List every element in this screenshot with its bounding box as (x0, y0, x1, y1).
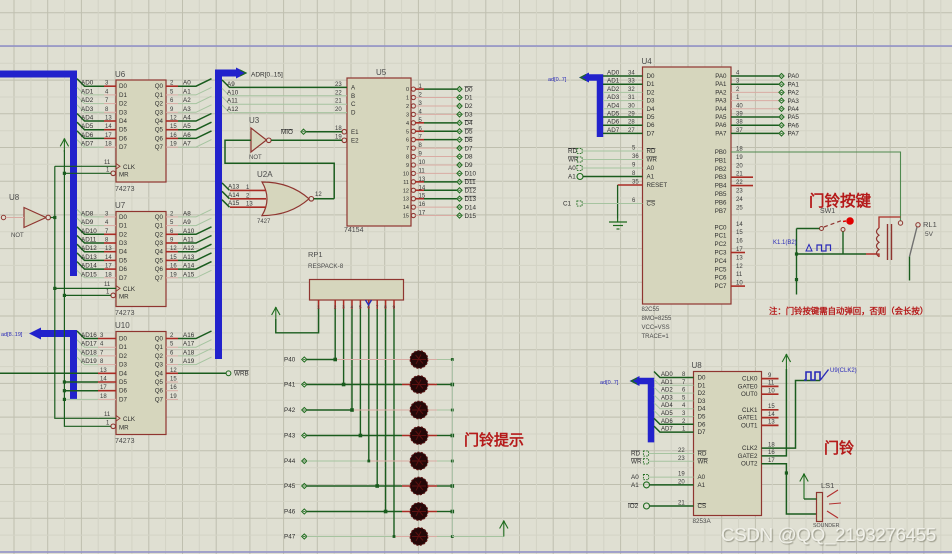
svg-text:4: 4 (406, 121, 409, 127)
svg-text:PA3: PA3 (788, 98, 800, 105)
latch U10 74273 body (116, 332, 166, 435)
terminal D11 (457, 179, 462, 184)
svg-text:NOT: NOT (11, 233, 24, 239)
svg-text:12: 12 (170, 116, 177, 122)
svg-text:Q3: Q3 (155, 109, 164, 116)
svg-text:19: 19 (736, 155, 743, 161)
U5 output 12 D12 (411, 188, 415, 192)
svg-text:GATE1: GATE1 (738, 415, 758, 422)
U4 pin PA0 (731, 75, 779, 77)
svg-text:A6: A6 (183, 132, 191, 139)
svg-text:5: 5 (406, 129, 409, 135)
svg-text:D12: D12 (465, 187, 477, 194)
U7 pin Q2 A10 (166, 233, 178, 235)
svg-text:PB1: PB1 (715, 157, 727, 164)
U5 output 2 D2 (411, 104, 415, 108)
svg-text:D4: D4 (119, 249, 127, 256)
svg-text:U2A: U2A (257, 170, 273, 179)
resistor pack RP1 RESPACK-8 (310, 280, 404, 301)
svg-text:OUT1: OUT1 (741, 422, 758, 429)
wire P46 to LED (307, 511, 386, 513)
svg-text:AD5: AD5 (81, 123, 94, 130)
terminal D13 (457, 196, 462, 201)
latch U6 74273 body (116, 80, 166, 182)
svg-text:8: 8 (406, 155, 409, 161)
svg-text:Q2: Q2 (155, 231, 164, 238)
svg-text:23: 23 (736, 189, 743, 195)
wire RP1 pin9 to LED row 8 (393, 309, 395, 537)
svg-text:33: 33 (628, 79, 635, 85)
svg-text:Q0: Q0 (155, 83, 164, 90)
svg-text:D5: D5 (698, 414, 706, 421)
svg-text:0: 0 (406, 87, 409, 93)
svg-text:D8: D8 (465, 154, 474, 161)
node CLK-NOT junction (53, 216, 56, 219)
RP1 pin 9 (393, 300, 395, 309)
U4 pin D3 AD3 (603, 100, 643, 102)
svg-text:A1: A1 (698, 482, 706, 489)
svg-text:PA2: PA2 (788, 90, 800, 97)
svg-text:Q1: Q1 (155, 223, 164, 230)
svg-text:GATE0: GATE0 (738, 383, 758, 390)
terminal PA4 (779, 106, 784, 111)
svg-text:Q4: Q4 (155, 118, 164, 125)
svg-text:P41: P41 (284, 382, 296, 389)
relay contact right (916, 223, 920, 227)
wire LS1 top pin (804, 498, 817, 500)
svg-text:14: 14 (100, 377, 107, 383)
svg-text:AD2: AD2 (661, 388, 673, 394)
wire SW1 right down (842, 232, 844, 255)
svg-text:AD6: AD6 (81, 132, 94, 139)
svg-text:Q7: Q7 (155, 396, 164, 403)
svg-text:PA0: PA0 (788, 73, 800, 80)
RP1 pin 7 (376, 300, 378, 309)
svg-text:23: 23 (335, 82, 342, 88)
wire VCC to RP1 pin1 (276, 309, 319, 333)
svg-text:D0: D0 (698, 375, 706, 382)
svg-text:82C55: 82C55 (642, 307, 660, 313)
svg-text:A10: A10 (183, 228, 195, 235)
terminal PA5 (779, 114, 784, 119)
node cathode junction 2 (451, 409, 454, 412)
svg-text:PC6: PC6 (714, 275, 727, 282)
U8 pin D1 AD1 (654, 379, 694, 385)
wire P44 to LED (307, 460, 369, 462)
svg-text:门铃: 门铃 (824, 439, 855, 457)
svg-text:74273: 74273 (115, 438, 135, 445)
svg-text:Q5: Q5 (155, 127, 164, 134)
svg-text:ad[0..7]: ad[0..7] (548, 77, 567, 83)
U10 pin D6 (98, 390, 116, 392)
U5 output 5 D5 (411, 129, 415, 133)
U7 pin Q1 A9 (166, 225, 178, 227)
svg-text:PA3: PA3 (715, 98, 727, 105)
terminal D12 (457, 188, 462, 193)
svg-text:PB7: PB7 (715, 208, 727, 215)
wire net to U10 D4 from left edge (0, 372, 98, 374)
terminal D5 (457, 129, 462, 134)
LED D2 (402, 384, 411, 386)
U5 pin B A10 (222, 88, 347, 96)
svg-text:A18: A18 (183, 349, 195, 356)
svg-text:门铃按键: 门铃按键 (809, 191, 872, 210)
terminal PA1 (779, 82, 784, 87)
svg-text:13: 13 (105, 246, 112, 252)
svg-text:12: 12 (315, 192, 322, 198)
svg-text:A11: A11 (183, 237, 194, 244)
svg-text:P47: P47 (284, 534, 296, 541)
svg-text:CLK1: CLK1 (742, 407, 758, 414)
svg-text:D0: D0 (647, 73, 655, 80)
svg-text:PC3: PC3 (714, 250, 727, 257)
svg-text:Q0: Q0 (155, 336, 164, 343)
U5 output 7 D7 (411, 146, 415, 150)
svg-text:11: 11 (736, 272, 743, 278)
svg-text:WR: WR (647, 157, 658, 164)
svg-text:D3: D3 (465, 112, 474, 119)
svg-text:2: 2 (406, 104, 409, 110)
svg-text:D4: D4 (119, 118, 127, 125)
svg-text:Q6: Q6 (155, 388, 164, 395)
RP1 pin 1 (318, 300, 320, 309)
U8 pin D3 AD3 (654, 395, 694, 401)
LED D4 (402, 435, 411, 437)
wire OUT2 to sounder (762, 464, 817, 514)
bus AD8-AD19 left arrow (40, 334, 74, 400)
svg-text:D14: D14 (465, 204, 477, 211)
svg-text:D1: D1 (119, 344, 127, 351)
terminal D6 (457, 137, 462, 142)
svg-text:D3: D3 (647, 98, 655, 105)
wire to U10 D5 (64, 381, 98, 383)
svg-text:PA1: PA1 (715, 81, 727, 88)
svg-text:D4: D4 (119, 370, 127, 377)
svg-text:A9: A9 (183, 219, 191, 226)
svg-text:15: 15 (170, 124, 177, 130)
svg-text:17: 17 (105, 133, 112, 139)
svg-text:WR: WR (631, 458, 642, 465)
svg-text:34: 34 (628, 71, 635, 77)
LED D7 (402, 511, 411, 513)
U10 pin D0 AD16 (98, 338, 116, 340)
clock source U9(CLK2) (804, 372, 820, 380)
svg-text:A12: A12 (227, 106, 239, 113)
svg-text:PA5: PA5 (788, 114, 800, 121)
svg-text:D2: D2 (119, 231, 127, 238)
svg-text:AD2: AD2 (81, 97, 94, 104)
svg-text:AD3: AD3 (607, 94, 620, 101)
svg-text:37: 37 (736, 128, 743, 134)
svg-text:D3: D3 (119, 362, 127, 369)
svg-text:B: B (351, 93, 355, 100)
wire GATE2 to power (762, 369, 787, 456)
node cathode junction 5 (451, 484, 455, 488)
svg-text:A11: A11 (227, 98, 238, 105)
svg-text:A0: A0 (568, 165, 576, 172)
svg-text:AD7: AD7 (81, 141, 94, 148)
svg-text:RD: RD (698, 451, 707, 458)
svg-text:D6: D6 (647, 122, 655, 129)
wire CLK net vertical (55, 166, 116, 418)
U6 pin Q2 A2 (166, 103, 178, 105)
wire relay coil bottom (877, 254, 879, 257)
svg-text:U4: U4 (642, 57, 653, 66)
svg-text:D1: D1 (119, 223, 127, 230)
node MR-U6 junction (63, 172, 66, 175)
svg-text:PA1: PA1 (788, 81, 800, 88)
terminal U8 input (1, 215, 5, 219)
svg-text:AD17: AD17 (81, 341, 97, 348)
U10 pin D4 (98, 372, 116, 374)
U5 output 10 D10 (411, 171, 415, 175)
PPI U4 8255 body (643, 67, 732, 304)
LED D8 (402, 536, 411, 538)
svg-text:15: 15 (736, 230, 743, 236)
svg-text:D2: D2 (119, 353, 127, 360)
wire P40 to LED (307, 359, 335, 361)
svg-text:40: 40 (736, 103, 743, 109)
svg-text:11: 11 (104, 160, 111, 166)
U2A input A14 (230, 198, 266, 200)
wire U8 output to CLK net (51, 217, 55, 219)
svg-text:A0: A0 (647, 165, 655, 172)
U4 pin D4 AD4 (603, 108, 643, 110)
U6 pin Q4 A4 (166, 120, 178, 122)
wire P42 to LED (307, 409, 352, 411)
terminal D15 (457, 213, 462, 218)
terminal D1 (457, 95, 462, 100)
svg-text:Q5: Q5 (155, 379, 164, 386)
wire LED 6 cathode (437, 485, 452, 487)
U4 pin PA1 (731, 83, 779, 85)
svg-text:WRB: WRB (234, 370, 249, 377)
svg-text:27: 27 (628, 128, 635, 134)
svg-text:PA7: PA7 (715, 130, 727, 137)
svg-text:21: 21 (335, 99, 342, 105)
svg-text:3: 3 (406, 112, 409, 118)
svg-text:MR: MR (119, 425, 129, 432)
node staircase junction 6 (384, 510, 388, 514)
svg-text:AD4: AD4 (661, 403, 673, 409)
svg-text:A0: A0 (183, 80, 191, 87)
svg-text:D7: D7 (119, 396, 127, 403)
node cathode junction 1 (451, 383, 455, 387)
svg-text:PA2: PA2 (715, 89, 727, 96)
svg-text:P40: P40 (284, 357, 296, 364)
svg-text:19: 19 (170, 272, 177, 278)
svg-text:D7: D7 (647, 130, 655, 137)
U5 output 13 D13 (411, 197, 415, 201)
wire RP1 pin8 to LED row 7 (385, 309, 387, 512)
U7 pin D3 AD11 (104, 242, 116, 244)
LED D1 (402, 359, 411, 361)
svg-text:D15: D15 (465, 213, 477, 220)
terminal D4 (457, 120, 462, 125)
svg-text:AD4: AD4 (81, 115, 94, 122)
wire MR net vertical (64, 150, 111, 426)
svg-text:A15: A15 (228, 200, 240, 207)
U4 pin PA7 (731, 132, 779, 134)
U7 pin Q4 A12 (166, 251, 178, 253)
svg-text:A12: A12 (183, 245, 195, 252)
U5 output 1 D1 (411, 95, 415, 99)
svg-text:31: 31 (628, 95, 635, 101)
terminal PA7 (779, 131, 784, 136)
page boundary line bottom (0, 551, 952, 553)
svg-text:A19: A19 (183, 358, 195, 365)
svg-text:D5: D5 (119, 379, 127, 386)
U6 pin D0 AD0 (104, 85, 116, 87)
wire LED common cathode vertical (451, 360, 453, 537)
wire cathode to power (452, 536, 504, 538)
terminal D2 (457, 103, 462, 108)
wire RP1 pin3 to LED row 2 (343, 309, 345, 385)
svg-text:P46: P46 (284, 509, 296, 516)
terminal D8 (457, 154, 462, 159)
svg-text:D11: D11 (465, 179, 477, 186)
svg-text:PA7: PA7 (788, 131, 800, 138)
RP1 pin 2 (334, 300, 336, 309)
U8 pin D4 AD4 (654, 403, 694, 409)
wire to U10 D7 (64, 398, 98, 400)
svg-text:AD13: AD13 (81, 254, 97, 261)
wire U3 input net from NOR output (225, 140, 334, 199)
svg-text:AD3: AD3 (661, 395, 673, 401)
svg-text:D1: D1 (119, 92, 127, 99)
svg-text:13: 13 (246, 202, 253, 208)
svg-text:D2: D2 (698, 390, 706, 397)
svg-text:A3: A3 (183, 106, 191, 113)
svg-text:CSDN @QQ_2193276455: CSDN @QQ_2193276455 (721, 524, 936, 546)
svg-text:17: 17 (100, 385, 107, 391)
U10 pin Q0 A16 (166, 338, 178, 340)
svg-text:D1: D1 (465, 95, 474, 102)
LED D6 (402, 485, 411, 487)
wire P43 to LED (307, 435, 361, 437)
svg-text:TRACE=1: TRACE=1 (642, 334, 670, 340)
wire RESET to ground (618, 184, 643, 186)
svg-text:P43: P43 (284, 433, 296, 440)
svg-text:AD1: AD1 (607, 78, 620, 85)
svg-text:5V: 5V (925, 231, 934, 238)
svg-text:CLK: CLK (123, 286, 136, 293)
U5 output 9 D9 (411, 163, 415, 167)
wire LED 5 cathode (437, 460, 452, 462)
U4 pin PA3 (731, 100, 779, 102)
svg-text:D3: D3 (119, 109, 127, 116)
svg-text:D4: D4 (647, 106, 655, 113)
U6 pin D7 AD7 (104, 146, 116, 148)
svg-text:AD6: AD6 (607, 119, 620, 126)
svg-text:CLK: CLK (123, 416, 136, 423)
svg-text:A17: A17 (183, 341, 195, 348)
terminal PA6 (779, 123, 784, 128)
LED D5 (402, 460, 411, 462)
svg-text:A1: A1 (568, 174, 576, 181)
svg-text:18: 18 (105, 142, 112, 148)
wire PB0 to relay (731, 152, 901, 221)
RP1 pin 4 (351, 300, 353, 309)
svg-text:13: 13 (403, 197, 409, 203)
U5 pin D A12 (222, 105, 347, 113)
svg-text:D10: D10 (465, 171, 477, 178)
svg-text:16: 16 (736, 239, 743, 245)
svg-text:AD9: AD9 (81, 219, 94, 226)
relay blade (910, 227, 918, 257)
wire LED 7 cathode (437, 511, 452, 513)
U4 pin D2 AD2 (603, 91, 643, 93)
svg-text:A14: A14 (228, 192, 240, 199)
wire LED 1 cathode (437, 359, 452, 361)
U4 pin D5 AD5 (603, 116, 643, 118)
svg-text:Q4: Q4 (155, 370, 164, 377)
svg-text:15: 15 (170, 255, 177, 261)
svg-text:ADR[0..15]: ADR[0..15] (251, 72, 283, 79)
svg-text:P42: P42 (284, 407, 296, 414)
svg-text:Q2: Q2 (155, 353, 164, 360)
svg-text:Q2: Q2 (155, 101, 164, 108)
U4 pin D0 AD0 (603, 75, 643, 77)
relay contact left (898, 221, 902, 225)
svg-text:A1: A1 (183, 88, 191, 95)
svg-text:PA6: PA6 (788, 122, 800, 129)
svg-text:39: 39 (736, 112, 743, 118)
svg-text:D9: D9 (465, 162, 474, 169)
svg-text:AD8: AD8 (81, 210, 94, 217)
svg-text:D1: D1 (698, 382, 706, 389)
U8 pin D7 AD7 (654, 426, 694, 432)
svg-text:LS1: LS1 (821, 481, 834, 490)
power arrow GATE2 (782, 355, 790, 363)
svg-text:PA4: PA4 (715, 106, 727, 113)
U4 pin PA2 (731, 91, 779, 93)
svg-text:12: 12 (170, 246, 177, 252)
U6 pin D2 AD2 (104, 103, 116, 105)
U7 pin D0 AD8 (104, 216, 116, 218)
wire CLK to U6 (55, 165, 116, 167)
svg-text:D2: D2 (647, 89, 655, 96)
svg-text:8253A: 8253A (693, 518, 712, 525)
wire doorbell horizontal (797, 253, 867, 255)
U4 pin PA6 (731, 124, 779, 126)
svg-text:25: 25 (736, 205, 743, 211)
svg-text:AD3: AD3 (81, 106, 94, 113)
terminal D9 (457, 162, 462, 167)
svg-text:PB5: PB5 (715, 191, 727, 198)
svg-text:Q3: Q3 (155, 362, 164, 369)
U7 pin D4 AD12 (104, 251, 116, 253)
svg-text:74154: 74154 (344, 227, 364, 234)
U5 output 8 D8 (411, 154, 415, 158)
U6 pin D4 AD4 (104, 120, 116, 122)
U5 pin A A9 (222, 80, 347, 88)
svg-text:CS: CS (647, 201, 656, 208)
timer U8 8253 body (694, 372, 762, 516)
decoder U5 74154 body (347, 78, 411, 226)
node MR-U7 junction (63, 294, 66, 297)
svg-text:AD1: AD1 (661, 380, 673, 386)
U8 pin D0 AD0 (654, 372, 694, 378)
svg-text:PC0: PC0 (714, 224, 727, 231)
U10 pin D1 AD17 (98, 346, 116, 348)
svg-text:AD5: AD5 (661, 411, 673, 417)
terminal PA0 (779, 73, 784, 78)
svg-text:Q7: Q7 (155, 275, 164, 282)
node OUT2 bend (785, 471, 788, 474)
svg-text:D2: D2 (465, 103, 474, 110)
svg-text:PA0: PA0 (715, 73, 727, 80)
